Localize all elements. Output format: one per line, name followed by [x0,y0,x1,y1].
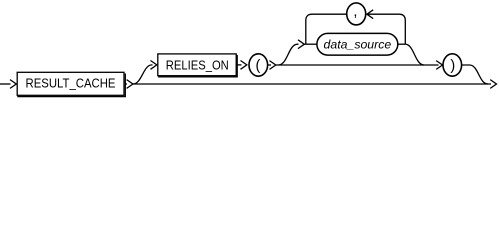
arrowhead into RESULT_CACHE [10,80,16,89]
wire: row2 continuing under data_source [276,64,439,66]
svg-text:data_source: data_source [324,37,392,51]
comma loop: left side [306,14,347,44]
arrowhead exit [490,80,496,89]
wire: S-curve up to data_source row [279,44,299,65]
box shadow RESULT_CACHE [17,74,125,97]
wire: S-curve down from data_source row [405,44,424,65]
keyword box RELIES_ON [158,54,236,76]
circle comma [347,3,366,25]
arrowhead into ( [241,61,247,70]
wire: S-curve up to RELIES_ON row [133,65,153,84]
wire: RELIES_ON to ( [237,64,241,66]
wire: data_source row to stadium [304,43,317,45]
wire: after RESULT_CACHE [125,83,127,85]
svg-text:(: ( [255,58,260,74]
comma loop: right side [367,14,405,44]
wire: stadium to right junction [397,43,405,45]
circle ) [443,54,462,76]
keyword box RESULT_CACHE [17,72,124,95]
arrowhead into RELIES_ON [151,61,157,70]
svg-text:RELIES_ON: RELIES_ON [166,58,229,73]
circle ( [249,54,268,76]
arrowhead (leftward) after comma [367,10,373,19]
box shadow RELIES_ON [158,55,237,77]
wire: exit curve from ) down to main line [462,65,488,84]
arrowhead into loop junction [298,40,304,49]
arrowhead into ) [436,61,442,70]
stadium data_source [317,33,398,55]
wire: main bypass line [133,83,491,85]
svg-text:,: , [353,4,357,20]
svg-text:): ) [450,58,455,74]
wire: after ( [268,64,271,66]
arrowhead at branch junction [127,80,133,89]
wire: entry line [0,83,11,85]
arrowhead after ( [270,61,276,70]
svg-text:RESULT_CACHE: RESULT_CACHE [26,76,116,91]
